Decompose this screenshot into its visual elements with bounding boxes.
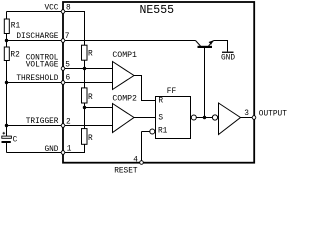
svg-text:RESET: RESET [114,167,138,175]
svg-text:R: R [88,51,93,59]
svg-text:COMP1: COMP1 [112,51,137,60]
svg-text:R: R [158,97,163,105]
svg-text:4: 4 [133,157,138,165]
svg-text:TRIGGER: TRIGGER [26,118,59,126]
svg-text:GND: GND [44,146,58,154]
svg-text:R1: R1 [158,128,168,136]
svg-text:R1: R1 [11,23,21,31]
svg-text:GND: GND [221,55,235,63]
svg-text:7: 7 [65,33,70,41]
svg-text:5: 5 [65,62,70,70]
svg-text:8: 8 [66,4,71,12]
svg-text:VOLTAGE: VOLTAGE [26,62,59,70]
svg-text:FF: FF [167,88,177,96]
svg-text:R2: R2 [10,51,20,59]
svg-text:3: 3 [244,110,249,118]
svg-text:6: 6 [66,75,71,83]
svg-text:1: 1 [67,146,72,154]
svg-text:R: R [88,135,93,143]
svg-text:THRESHOLD: THRESHOLD [16,75,58,83]
svg-text:OUTPUT: OUTPUT [259,110,287,118]
svg-text:COMP2: COMP2 [112,94,137,103]
svg-text:C: C [13,136,18,144]
svg-text:S: S [158,114,163,122]
svg-text:NE555: NE555 [140,4,175,17]
svg-text:DISCHARGE: DISCHARGE [16,33,58,41]
svg-text:2: 2 [66,118,71,126]
svg-text:VCC: VCC [44,5,58,13]
svg-text:R: R [88,94,93,102]
